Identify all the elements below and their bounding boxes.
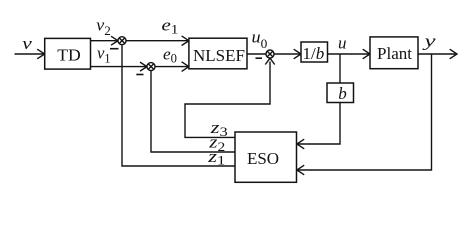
arrowhead up into junction3 xyxy=(265,58,274,64)
arrowhead output y xyxy=(450,49,457,59)
block TD xyxy=(45,38,91,69)
arrowhead into Plant xyxy=(363,49,370,59)
svg-text:NLSEF: NLSEF xyxy=(193,46,245,65)
arrowhead into ESO lower input xyxy=(297,165,304,175)
wire z2 from ESO up to junction2 xyxy=(151,71,235,152)
block ESO xyxy=(235,132,297,182)
wire b block to ESO upper input xyxy=(298,103,340,145)
wire Plant to output (y) xyxy=(418,53,456,55)
svg-text:b: b xyxy=(338,84,347,103)
wire z1 from ESO up to junction1 xyxy=(122,45,235,166)
svg-text:1/b: 1/b xyxy=(303,44,325,63)
arrowhead into NLSEF bottom input xyxy=(182,62,189,72)
svg-text:ESO: ESO xyxy=(247,149,279,168)
arrowhead into ESO upper input xyxy=(297,139,304,149)
block Plant xyxy=(370,37,418,69)
wire z3 from ESO up to junction3 xyxy=(185,62,270,138)
wire NLSEF to junction3 (u0) xyxy=(247,53,266,55)
wire input v xyxy=(15,53,45,55)
minus sign at junction2 xyxy=(136,74,143,76)
summing junction 3 (u0 minus z3) xyxy=(266,50,274,58)
svg-text:Plant: Plant xyxy=(377,44,412,63)
arrowhead into TD xyxy=(37,49,45,59)
block b xyxy=(327,83,354,103)
arrowhead into junction1 xyxy=(111,36,118,45)
summing junction 2 (v1 minus z2) xyxy=(147,63,155,71)
minus sign at junction3 xyxy=(256,57,263,59)
wire y feedback down and into ESO lower input xyxy=(298,54,432,170)
svg-text:TD: TD xyxy=(57,46,81,65)
wire 1/b to Plant (u) xyxy=(328,53,370,55)
block 1/b xyxy=(301,42,328,62)
summing junction 1 (v2 minus z1) xyxy=(118,37,126,45)
minus sign at junction1 xyxy=(110,48,119,50)
wire branch from u line down to b block xyxy=(339,54,341,83)
wire TD to junction1 (v2) xyxy=(91,40,118,42)
svg-text:y: y xyxy=(422,31,437,50)
wire junction2 to NLSEF (e0) xyxy=(155,66,188,68)
wire TD to junction2 (v1) xyxy=(91,66,147,68)
wire junction3 to 1/b xyxy=(274,53,300,55)
svg-text:u: u xyxy=(338,33,347,52)
arrowhead into junction2 xyxy=(140,62,147,71)
wire junction1 to NLSEF (e1) xyxy=(126,40,188,42)
arrowhead into 1/b xyxy=(294,49,301,59)
arrowhead into NLSEF top input xyxy=(182,36,189,46)
block NLSEF xyxy=(189,38,247,69)
svg-text:v: v xyxy=(22,34,32,53)
